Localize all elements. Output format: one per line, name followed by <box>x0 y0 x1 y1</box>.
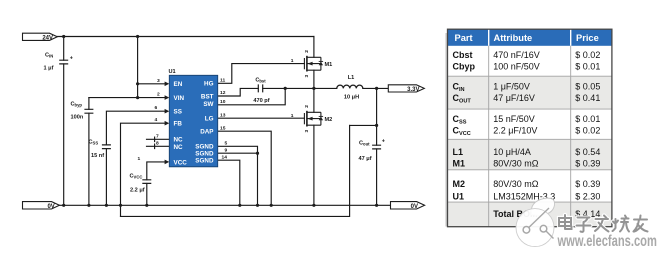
svg-text:SW: SW <box>203 101 213 108</box>
wire HG route <box>218 64 305 84</box>
wire VIN <box>89 97 167 99</box>
svg-text:4: 4 <box>155 117 158 123</box>
wire M1 source to switch node <box>313 70 315 88</box>
svg-text:470 pf: 470 pf <box>253 98 269 104</box>
wire SGND pin9 <box>218 152 258 154</box>
svg-text:3: 3 <box>157 78 160 84</box>
svg-text:2: 2 <box>157 92 160 98</box>
pin VIN <box>165 95 170 100</box>
pin SS <box>165 109 170 114</box>
wire SW route <box>218 88 286 104</box>
svg-text:BST: BST <box>201 93 214 100</box>
node ground Cout <box>375 204 378 207</box>
svg-text:100 nF/50V: 100 nF/50V <box>493 62 540 72</box>
node ground SGND5 <box>256 204 259 207</box>
node switch node junction <box>312 87 315 90</box>
svg-text:6: 6 <box>155 105 158 111</box>
svg-text:0V: 0V <box>47 204 54 210</box>
node ground DAP <box>270 204 273 207</box>
svg-text:HG: HG <box>204 81 214 88</box>
node ground SGND14 <box>238 204 241 207</box>
svg-text:0V: 0V <box>411 204 418 210</box>
wire EN <box>138 83 167 85</box>
node 24V-CIN junction <box>62 35 65 38</box>
svg-text:8: 8 <box>156 141 159 147</box>
svg-text:Part: Part <box>455 33 473 43</box>
node FB sense tee <box>375 124 378 127</box>
wire SGND pin5 <box>218 146 258 205</box>
svg-text:5: 5 <box>225 140 228 146</box>
wire L1 to output node <box>363 87 389 89</box>
node ground Cbyp <box>87 204 90 207</box>
svg-text:11: 11 <box>220 77 225 83</box>
svg-text:$ 2.30: $ 2.30 <box>575 191 600 201</box>
watermark hanzi 1 <box>559 215 572 229</box>
watermark hanzi 4 <box>613 216 630 232</box>
capacitor Css <box>102 145 111 149</box>
pin FB <box>165 121 170 126</box>
node SGND9 tee <box>256 152 259 155</box>
svg-text:47 μf: 47 μf <box>359 156 372 162</box>
wire ground rail <box>58 204 391 206</box>
node ground Cvcc <box>145 204 148 207</box>
watermark hanzi 2 <box>577 218 591 232</box>
svg-text:$ 0.05: $ 0.05 <box>575 82 600 92</box>
wire DAP route <box>218 131 272 205</box>
svg-text:L1: L1 <box>348 75 355 81</box>
svg-text:CIN: CIN <box>45 53 53 59</box>
svg-text:SGND: SGND <box>195 158 214 165</box>
svg-text:EN: EN <box>174 81 183 88</box>
svg-text:FB: FB <box>174 121 183 128</box>
svg-text:Cbyp: Cbyp <box>453 62 476 72</box>
capacitor Cbst <box>258 84 262 92</box>
svg-text:SS: SS <box>174 109 182 116</box>
svg-text:13: 13 <box>220 112 226 118</box>
svg-text:470 nF/16V: 470 nF/16V <box>493 50 540 60</box>
svg-text:2: 2 <box>304 105 310 108</box>
svg-text:10: 10 <box>220 99 226 105</box>
wire BST route <box>218 88 259 96</box>
svg-text:15: 15 <box>220 125 226 131</box>
node VIN tee <box>136 96 139 99</box>
svg-text:Cbyp: Cbyp <box>71 102 83 108</box>
capacitor Cvcc <box>142 180 151 184</box>
svg-text:Cbst: Cbst <box>453 50 473 60</box>
pin EN <box>165 82 170 87</box>
wire output vertical / Cout branch <box>376 88 378 205</box>
svg-text:1 μF/50V: 1 μF/50V <box>493 82 530 92</box>
svg-text:2: 2 <box>304 50 310 53</box>
svg-text:9: 9 <box>225 147 228 153</box>
transistor M2 <box>304 111 321 127</box>
svg-text:M2: M2 <box>453 179 466 189</box>
pin VCC <box>165 160 170 165</box>
svg-text:3: 3 <box>304 130 310 133</box>
wire FB <box>121 123 167 216</box>
svg-text:$ 0.02: $ 0.02 <box>575 126 600 136</box>
svg-text:$ 0.01: $ 0.01 <box>575 114 600 124</box>
svg-text:15 nF/50V: 15 nF/50V <box>493 114 535 124</box>
svg-text:80V/30 mΩ: 80V/30 mΩ <box>493 159 539 169</box>
wire SS <box>106 111 166 205</box>
node ground Css <box>105 204 108 207</box>
svg-text:80V/30 mΩ: 80V/30 mΩ <box>493 179 539 189</box>
svg-text:VCC: VCC <box>174 159 188 166</box>
node 24V input flag <box>23 33 58 41</box>
svg-text:100n: 100n <box>71 115 84 121</box>
wire M2 source to ground <box>313 125 315 205</box>
node ground M2 <box>312 204 315 207</box>
svg-text:24V: 24V <box>42 35 53 41</box>
wire SGND pin14 <box>218 160 240 205</box>
node EN tee <box>136 82 139 85</box>
svg-text:$ 0.54: $ 0.54 <box>575 147 600 157</box>
svg-text:M2: M2 <box>325 117 333 123</box>
node ground CIN <box>62 204 65 207</box>
capacitor CIN <box>59 60 68 64</box>
wire FB sense top <box>350 124 377 126</box>
node 24V-EN feed junction <box>136 35 139 38</box>
wire FB sense bottom <box>121 125 350 216</box>
svg-text:1 μf: 1 μf <box>44 66 54 72</box>
svg-text:CVCC: CVCC <box>130 174 143 180</box>
svg-text:2.2 μf: 2.2 μf <box>130 188 145 194</box>
svg-text:3.3V: 3.3V <box>407 87 419 93</box>
wire Cbyp branch <box>88 98 90 206</box>
svg-text:47 μF/16V: 47 μF/16V <box>493 93 535 103</box>
wire 24V top rail <box>57 36 314 38</box>
svg-text:$ 0.02: $ 0.02 <box>575 50 600 60</box>
watermark logo circle <box>516 198 555 246</box>
wire CIN branch vertical <box>63 37 65 206</box>
svg-text:15 nf: 15 nf <box>91 153 104 159</box>
node SW-Cbst junction <box>284 87 287 90</box>
svg-text:$ 0.01: $ 0.01 <box>575 62 600 72</box>
node output-L1 junction <box>375 87 378 90</box>
svg-text:2.2 μF/10V: 2.2 μF/10V <box>493 126 537 136</box>
svg-text:$ 0.39: $ 0.39 <box>575 179 600 189</box>
svg-text:Attribute: Attribute <box>494 33 533 43</box>
svg-text:Price: Price <box>576 33 599 43</box>
wire M2 drain <box>313 88 315 112</box>
svg-text:www.elecfans.com: www.elecfans.com <box>557 232 657 249</box>
svg-text:Cout: Cout <box>359 141 370 147</box>
svg-text:10 μH: 10 μH <box>344 95 359 101</box>
svg-text:+: + <box>70 56 73 62</box>
svg-text:U1: U1 <box>169 69 176 75</box>
capacitor Cbyp <box>84 109 93 113</box>
svg-text:L1: L1 <box>453 147 464 157</box>
svg-text:$ 0.41: $ 0.41 <box>575 93 600 103</box>
watermark hanzi 5 <box>634 216 648 232</box>
svg-text:+: + <box>382 139 385 145</box>
svg-text:12: 12 <box>220 90 226 96</box>
BOM table <box>445 29 612 227</box>
inductor L1 <box>337 85 363 88</box>
wire switch node <box>263 87 337 89</box>
ground 0V flag right <box>391 202 425 210</box>
watermark hanzi 3 <box>595 216 609 232</box>
wire M1 drain <box>313 37 315 58</box>
svg-text:3: 3 <box>304 75 310 78</box>
svg-text:1: 1 <box>138 156 141 162</box>
svg-text:M1: M1 <box>453 159 466 169</box>
wire LG route <box>218 117 305 119</box>
wire EN/VIN feed vertical <box>137 37 139 98</box>
svg-text:1: 1 <box>291 58 294 64</box>
svg-text:NC: NC <box>174 137 184 144</box>
node ground FB crossing <box>119 204 122 207</box>
op-amp U1 regulator IC body <box>169 75 217 167</box>
svg-text:CSS: CSS <box>89 140 99 146</box>
svg-text:10 μH/4A: 10 μH/4A <box>493 147 531 157</box>
node 3.3V output flag <box>388 85 424 93</box>
wire VCC <box>147 162 167 205</box>
wire NC stub pin8 <box>147 144 170 148</box>
svg-text:1: 1 <box>291 113 294 119</box>
svg-text:SGND: SGND <box>195 151 214 158</box>
ground 0V flag left <box>23 202 60 210</box>
svg-text:NC: NC <box>174 144 184 151</box>
svg-text:14: 14 <box>222 154 228 160</box>
svg-text:VIN: VIN <box>174 95 185 102</box>
capacitor Cout <box>372 145 381 149</box>
svg-text:LG: LG <box>205 116 214 123</box>
svg-text:Cbst: Cbst <box>255 78 266 84</box>
svg-text:M1: M1 <box>325 62 333 68</box>
svg-text:7: 7 <box>156 133 159 139</box>
svg-text:DAP: DAP <box>200 129 213 136</box>
transistor M1 <box>304 56 321 72</box>
wire NC stub pin7 <box>147 137 170 141</box>
svg-text:$ 0.39: $ 0.39 <box>575 159 600 169</box>
svg-text:U1: U1 <box>453 191 465 201</box>
